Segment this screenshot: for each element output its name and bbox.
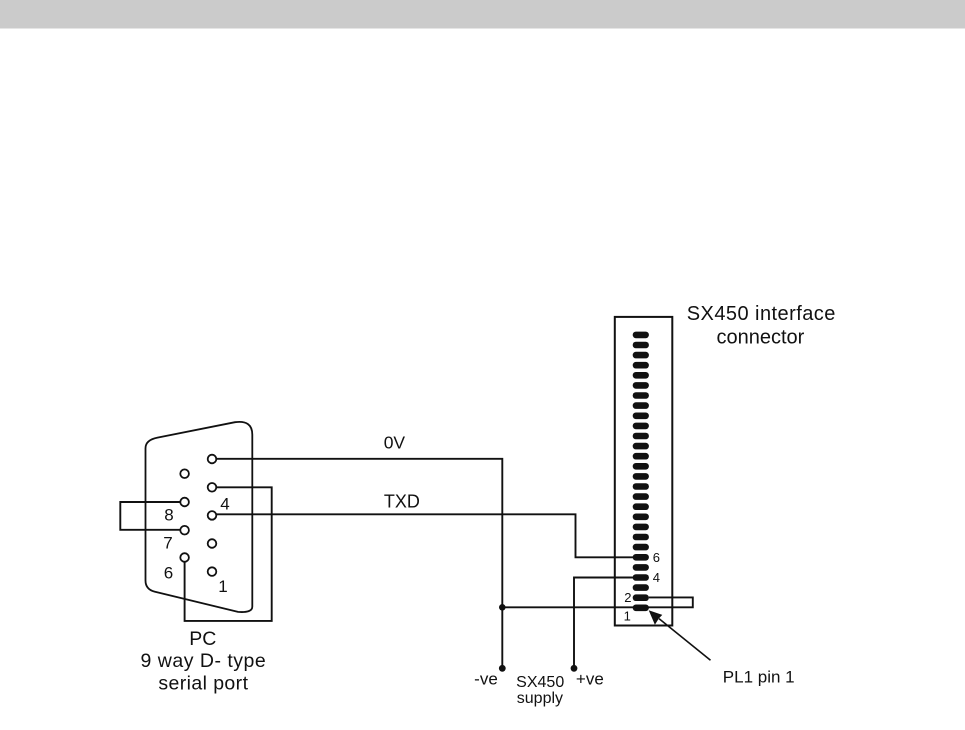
PL1 pin 16 pad — [633, 453, 649, 460]
PL1 pin 2 pad — [633, 594, 649, 601]
PL1 pin 7 pad — [633, 544, 649, 551]
svg-text:1: 1 — [624, 609, 631, 624]
svg-text:SX450: SX450 — [516, 674, 564, 691]
svg-text:0V: 0V — [384, 432, 406, 452]
svg-text:supply: supply — [517, 690, 563, 707]
PL1 pin 15 pad — [633, 463, 649, 470]
svg-text:1: 1 — [218, 577, 227, 596]
PL1 pin 13 pad — [633, 483, 649, 490]
PL1 pin 20 pad — [633, 413, 649, 420]
PL1 pin 1 pad — [633, 605, 649, 612]
PL1 pin 5 pad — [633, 564, 649, 571]
PL1 pin 6 pad — [633, 554, 649, 561]
PL1 pin1 pointer shaft — [659, 619, 711, 661]
PL1 pin 26 pad — [633, 352, 649, 359]
PL1 pin1 pointer arrowhead — [649, 610, 663, 625]
svg-text:4: 4 — [653, 570, 660, 585]
svg-text:+ve: +ve — [576, 670, 604, 689]
PL1 pin 24 pad — [633, 372, 649, 379]
junction dot 0V/-ve — [499, 604, 506, 611]
svg-text:9 way D- type: 9 way D- type — [141, 650, 267, 672]
wire 0V run to PL1 pin2 — [502, 597, 693, 607]
svg-text:TXD: TXD — [384, 492, 420, 512]
DB9 pin 4 — [208, 483, 217, 492]
DB9 pin 9 — [180, 469, 189, 478]
PL1 pin 19 pad — [633, 423, 649, 430]
terminal dot -ve — [499, 665, 506, 672]
PL1 pin 3 pad — [633, 584, 649, 591]
terminal dot +ve — [571, 665, 578, 672]
PL1 pin 22 pad — [633, 392, 649, 399]
wire 0V: DB9 pin5 to -ve rail — [217, 459, 503, 669]
PL1 pin 11 pad — [633, 503, 649, 510]
svg-text:8: 8 — [164, 506, 173, 525]
svg-text:2: 2 — [624, 590, 631, 605]
svg-text:SX450 interface: SX450 interface — [687, 303, 836, 325]
DB9 pin 5 — [208, 455, 217, 464]
wire TXD: DB9 pin3 to PL1 pin6 — [217, 514, 634, 557]
DB9 pin 8 — [180, 498, 189, 507]
PL1 pin 8 pad — [633, 534, 649, 541]
svg-text:connector: connector — [716, 327, 804, 349]
wire +ve supply to PL1 pin4 — [574, 578, 633, 669]
wire loopback DB9 pin4 to pin6 — [185, 487, 272, 621]
PL1 pin 4 pad — [633, 574, 649, 581]
PL1 pin 17 pad — [633, 443, 649, 450]
PL1 pin 27 pad — [633, 342, 649, 349]
DB9 pin 1 — [208, 567, 217, 576]
PL1 pin 18 pad — [633, 433, 649, 440]
svg-text:6: 6 — [653, 550, 660, 565]
DB9 pin 6 — [180, 553, 189, 562]
svg-text:-ve: -ve — [474, 670, 498, 689]
svg-text:4: 4 — [220, 495, 229, 514]
PL1 pin 12 pad — [633, 493, 649, 500]
wire loopback DB9 pin8 to pin7 — [120, 502, 184, 530]
DB9 pin 3 — [208, 511, 217, 520]
PL1 pin 23 pad — [633, 382, 649, 389]
PL1 pin 9 pad — [633, 524, 649, 531]
svg-text:7: 7 — [163, 534, 172, 553]
svg-text:PC: PC — [189, 628, 216, 650]
DB9 pin 7 — [180, 526, 189, 535]
DB9 pin 2 — [208, 539, 217, 548]
PL1 pin 21 pad — [633, 402, 649, 409]
svg-text:serial port: serial port — [158, 673, 248, 695]
PC DB9 connector body — [146, 422, 253, 612]
svg-text:6: 6 — [164, 564, 173, 583]
PL1 pin 25 pad — [633, 362, 649, 369]
PL1 pin 14 pad — [633, 473, 649, 480]
PL1 pin 28 pad — [633, 332, 649, 339]
svg-text:PL1 pin 1: PL1 pin 1 — [723, 667, 795, 686]
PL1 pin 10 pad — [633, 514, 649, 521]
top gray bar — [0, 0, 965, 29]
SX450 connector body PL1 — [615, 317, 673, 626]
